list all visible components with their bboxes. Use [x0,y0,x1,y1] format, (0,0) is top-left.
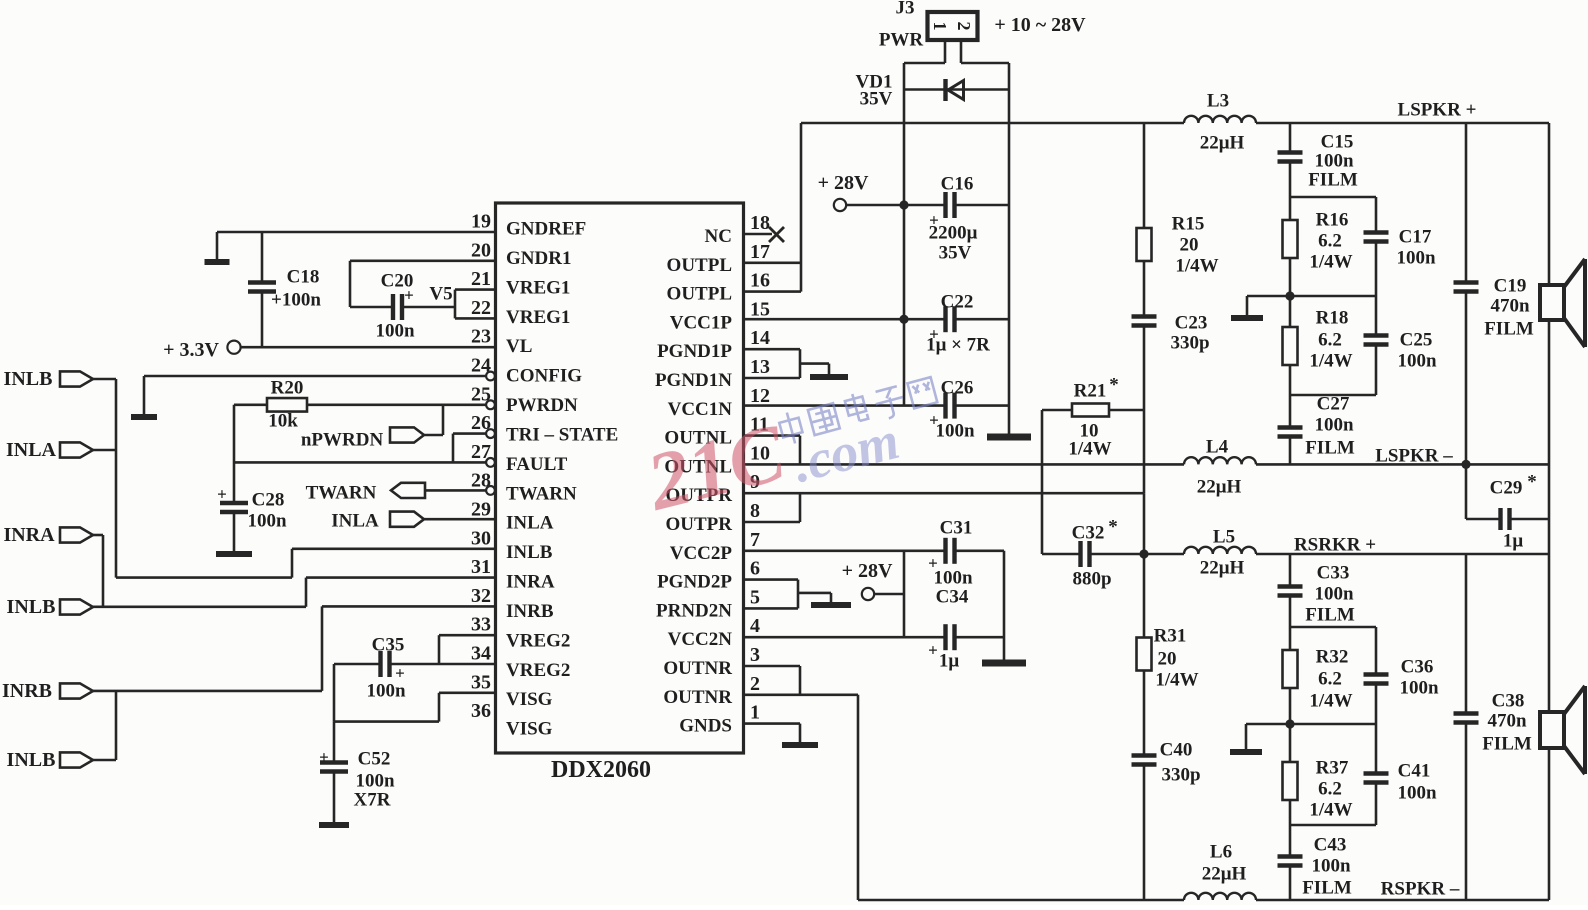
svg-text:GNDS: GNDS [679,716,732,737]
svg-text:C26: C26 [941,378,974,399]
svg-text:*: * [1108,517,1118,538]
svg-text:OUTNR: OUTNR [663,658,732,679]
pin 18 NC no-connect X [744,227,785,242]
svg-text:12: 12 [750,385,770,407]
pin 36 VISG label [471,700,553,740]
wire OUTNL pins 11,10 bracket and row [744,436,1550,465]
svg-text:FILM: FILM [1305,605,1355,626]
svg-text:nPWRDN: nPWRDN [301,430,384,451]
svg-text:1/4W: 1/4W [1175,256,1218,277]
node VCC/C16 junction [899,200,908,209]
svg-text:100n: 100n [247,511,287,532]
capacitor C36 100n [1290,657,1439,725]
pin 33 VREG2 label [471,614,570,652]
svg-text:TRI – STATE: TRI – STATE [506,424,618,445]
svg-text:1μ: 1μ [1503,531,1524,552]
svg-text:330p: 330p [1170,333,1209,354]
svg-text:100n: 100n [1397,783,1437,804]
svg-text:FILM: FILM [1484,319,1534,340]
svg-text:C29: C29 [1490,478,1523,499]
capacitor C34 1u [904,587,1004,672]
wire R32/C36 loop top [1290,627,1376,675]
svg-text:100n: 100n [355,771,395,792]
svg-text:1μ: 1μ [939,651,960,672]
net flag INRB input [2,680,93,702]
terminal +3.3V (pin 23 VL) [163,339,495,361]
svg-text:1/4W: 1/4W [1155,670,1198,691]
svg-text:L6: L6 [1210,842,1232,863]
svg-text:C40: C40 [1160,740,1193,761]
capacitor C19 470n FILM [1454,123,1534,464]
svg-text:16: 16 [750,270,770,292]
capacitor C17 100n [1290,227,1436,297]
wire INRA/INLB to pin 31 [93,535,496,607]
svg-text:1: 1 [930,22,950,31]
svg-text:100n: 100n [935,421,975,442]
ground GNDREF pin 19 [205,232,496,262]
svg-text:29: 29 [471,499,491,521]
svg-text:OUTNR: OUTNR [663,687,732,708]
svg-text:1/4W: 1/4W [1309,800,1352,821]
svg-text:*: * [1109,375,1119,396]
svg-text:C15: C15 [1321,132,1354,153]
pin 9 OUTPR label [666,471,761,506]
svg-text:VISG: VISG [506,719,553,740]
svg-text:20: 20 [471,239,491,261]
svg-text:20: 20 [1158,649,1177,670]
wire J3 pin2 to GND rail [961,40,1009,63]
svg-text:INLA: INLA [506,513,554,534]
wire VCC2 left vertical [903,551,906,637]
wire OUTNR pins 3,2 bracket and bottom row [744,666,1550,900]
svg-text:C18: C18 [287,267,320,288]
net flag INLB input 2 [7,596,93,618]
wire VREG1 pins 21,22 bracket [455,290,496,319]
wire C31/C34 right vertical [1003,551,1006,660]
svg-text:FILM: FILM [1482,734,1532,755]
svg-text:RSPKR –: RSPKR – [1381,879,1460,900]
svg-text:5: 5 [750,586,760,608]
svg-text:100n: 100n [1314,415,1354,436]
svg-text:+100n: +100n [271,290,321,311]
svg-text:C17: C17 [1399,227,1432,248]
svg-text:100n: 100n [1314,151,1354,172]
svg-text:R15: R15 [1172,214,1205,235]
speaker RSPKR [1540,554,1585,900]
resistor R21* 10 1/4W [1042,375,1144,460]
svg-text:R31: R31 [1154,626,1187,647]
wire VCC1P pin 15 [744,318,905,321]
svg-text:17: 17 [750,241,770,263]
resistor R31 20 1/4W [1137,554,1199,756]
wire J3 pin1 to VCC rail [904,40,945,63]
svg-text:C31: C31 [940,518,973,539]
speaker LSPKR [1540,123,1585,554]
net flag INLA (pin 29) [331,511,495,532]
svg-text:VCC2P: VCC2P [670,543,733,564]
svg-text:GNDR1: GNDR1 [506,248,571,269]
svg-text:PGND2P: PGND2P [657,572,732,593]
capacitor C20 100n V5 [350,261,496,342]
resistor R20 10k (pin 25 PWRDN) [234,378,495,432]
resistor R16 6.2 1/4W [1283,197,1353,296]
inductor L4 22uH [1184,437,1256,498]
pin 13 PGND1N label [655,356,770,391]
resistor R37 6.2 1/4W [1283,724,1353,825]
svg-text:4: 4 [750,615,760,637]
svg-text:30: 30 [471,527,491,549]
capacitor C26 100n (pin 12 VCC1N) [744,378,1010,442]
svg-text:22μH: 22μH [1200,133,1245,154]
resistor R32 6.2 1/4W [1283,627,1353,724]
svg-text:+ 3.3V: + 3.3V [163,339,219,361]
pin 12 VCC1N label [668,385,770,420]
ground midpoint L [1231,296,1290,318]
svg-text:VREG1: VREG1 [506,277,570,298]
ground PGND2 pins 6,5 [744,580,852,609]
node VCC1P junction [899,315,908,324]
svg-text:100n: 100n [366,681,406,702]
pin 25 PWRDN label [471,383,578,416]
svg-text:3: 3 [750,644,760,666]
svg-text:C52: C52 [358,749,391,770]
svg-text:32: 32 [471,585,491,607]
pin 29 INLA label [471,499,554,534]
svg-text:INLB: INLB [506,542,553,563]
svg-text:100n: 100n [375,321,415,342]
svg-text:22μH: 22μH [1200,558,1245,579]
svg-text:2: 2 [750,673,760,695]
svg-text:FILM: FILM [1305,438,1355,459]
svg-text:100n: 100n [933,568,973,589]
svg-text:INRA: INRA [506,572,555,593]
svg-text:CONFIG: CONFIG [506,366,582,387]
svg-text:OUTPL: OUTPL [667,255,732,276]
svg-text:L4: L4 [1206,437,1229,458]
wire OUTPL pins 17,16 bracket [744,123,802,292]
svg-text:C23: C23 [1175,313,1208,334]
capacitor C52 100n X7R [319,722,395,825]
svg-text:J3: J3 [896,0,915,19]
wire TRI-STATE/FAULT pins 26,27 bracket [234,429,495,467]
ground CONFIG pin 24 [131,372,495,417]
svg-text:36: 36 [471,700,491,722]
capacitor C25 100n [1290,296,1437,395]
pin 15 VCC1P label [670,298,770,333]
capacitor C28 100n [216,405,287,554]
capacitor C31 100n [904,518,1004,589]
svg-text:PWRDN: PWRDN [506,395,578,416]
capacitor C43 100n FILM [1278,825,1352,900]
pin 2 OUTNR label [663,673,760,708]
capacitor C22 1u x 7R [904,292,1009,356]
svg-text:VREG2: VREG2 [506,660,570,681]
svg-text:INLA: INLA [6,439,57,461]
ground GND rail [987,434,1031,441]
svg-text:15: 15 [750,298,770,320]
capacitor C23 330p [1132,313,1210,494]
svg-text:PGND1N: PGND1N [655,370,732,391]
svg-text:880p: 880p [1072,569,1111,590]
inductor L6 22uH [1184,842,1256,901]
pin 27 FAULT label [471,441,568,475]
pin 22 VREG1 label [471,297,570,328]
svg-text:35V: 35V [860,89,893,110]
svg-text:13: 13 [750,356,770,378]
connector J3 PWR [879,0,1086,51]
wire GND rail vertical [1008,63,1011,434]
wire VISG pins 35,36 bracket [334,664,496,722]
capacitor C33 100n FILM [1278,554,1355,627]
watermark chinese chars (decorative) [777,373,938,446]
svg-text:6.2: 6.2 [1318,330,1342,351]
net flag INLB input 3 [7,691,116,771]
node R16/R18 midpoint [1285,291,1294,300]
svg-text:C32: C32 [1072,523,1105,544]
terminal +28V (top) [818,172,904,211]
capacitor C18 100n [248,232,321,347]
svg-text:LSPKR –: LSPKR – [1375,446,1453,467]
svg-text:R32: R32 [1316,647,1349,668]
svg-text:22μH: 22μH [1202,864,1247,885]
svg-text:FILM: FILM [1308,170,1358,191]
pin 17 OUTPL label [667,241,770,276]
capacitor C41 100n [1290,724,1437,825]
pin 21 VREG1 label [471,268,570,298]
svg-text:TWARN: TWARN [506,483,577,504]
svg-text:C28: C28 [252,490,285,511]
capacitor C15 100n FILM [1278,123,1358,197]
svg-text:19: 19 [471,211,491,233]
svg-text:+ 10 ~ 28V: + 10 ~ 28V [994,14,1086,36]
svg-text:R20: R20 [271,378,304,399]
svg-text:OUTPL: OUTPL [667,284,732,305]
svg-text:6.2: 6.2 [1318,669,1342,690]
svg-text:C34: C34 [936,587,969,608]
svg-text:VREG2: VREG2 [506,630,570,651]
svg-text:+ 28V: + 28V [818,172,869,194]
svg-text:C22: C22 [941,292,974,313]
svg-text:6.2: 6.2 [1318,231,1342,252]
wire VCC rail vertical [903,63,906,406]
pin 6 PGND2P label [657,558,760,593]
svg-text:+: + [319,748,329,767]
diode VD1 35V [856,72,1009,110]
svg-text:31: 31 [471,556,491,578]
pin 20 GNDR1 label [471,239,571,269]
pin 28 TWARN label [471,470,577,505]
svg-text:PRND2N: PRND2N [656,600,732,621]
wire R16/C17 loop top [1290,197,1376,233]
pin 35 VISG label [471,671,553,710]
wire INRB to pin 32 [93,606,496,691]
wire VCC2N pin 4 [744,636,905,639]
svg-text:C36: C36 [1401,657,1434,678]
svg-text:100n: 100n [1396,248,1436,269]
svg-text:21: 21 [471,268,491,290]
capacitor C32* 880p [1042,517,1144,590]
svg-text:INLB: INLB [7,749,56,771]
svg-text:6: 6 [750,558,760,580]
op-amp U1 DDX2060 IC body [496,203,744,783]
svg-text:C41: C41 [1398,761,1431,782]
pin 1 GNDS label [679,702,760,737]
net flag INLB input 1 [4,368,116,390]
ground midpoint R [1230,724,1290,752]
pin 3 OUTNR label [663,644,760,679]
pin 7 VCC2P label [670,529,760,564]
svg-text:2: 2 [954,22,974,31]
pin 32 INRB label [471,585,554,622]
svg-text:28: 28 [471,470,491,492]
pin 34 VREG2 label [471,643,570,681]
svg-text:330p: 330p [1161,765,1200,786]
ground C31/C34 [982,660,1026,667]
capacitor C16 2200u 35V [904,174,1009,264]
svg-text:VL: VL [506,336,532,357]
svg-text:VREG1: VREG1 [506,307,570,328]
svg-text:R21: R21 [1074,381,1107,402]
svg-text:100n: 100n [1399,678,1439,699]
svg-text:VCC2N: VCC2N [668,629,733,650]
svg-text:100n: 100n [1314,584,1354,605]
svg-text:1: 1 [750,702,760,724]
svg-text:X7R: X7R [354,790,391,811]
wire VREG2 pins 33,34 bracket [439,635,496,664]
pin 31 INRA label [471,556,555,592]
svg-text:INLB: INLB [4,368,53,390]
svg-text:2200μ: 2200μ [929,223,978,244]
pin 23 VL label [471,326,532,357]
svg-text:LSPKR +: LSPKR + [1398,100,1477,121]
svg-text:RSRKR +: RSRKR + [1294,535,1376,556]
svg-text:INRB: INRB [2,680,52,702]
svg-text:+ 28V: + 28V [842,560,893,582]
node OUTPR/L5 junction [1139,549,1148,558]
svg-text:VISG: VISG [506,689,553,710]
capacitor C27 100n FILM [1278,394,1355,465]
svg-text:INRB: INRB [506,601,554,622]
svg-text:6.2: 6.2 [1318,779,1342,800]
svg-text:R16: R16 [1316,210,1349,231]
pin 26 TRI - STATE label [471,412,618,445]
svg-text:GNDREF: GNDREF [506,219,586,240]
svg-text:DDX2060: DDX2060 [551,757,651,783]
svg-text:1μ × 7R: 1μ × 7R [926,335,990,356]
svg-text:1/4W: 1/4W [1309,351,1352,372]
svg-text:L5: L5 [1213,527,1235,548]
net flag TWARN (pin 28) [306,483,495,504]
svg-text:C43: C43 [1314,835,1347,856]
svg-text:14: 14 [750,327,770,349]
pin 10 OUTNL label [664,442,770,477]
svg-text:+: + [217,485,227,504]
pin 30 INLB label [471,527,553,563]
svg-text:C19: C19 [1494,276,1527,297]
svg-text:C35: C35 [372,635,405,656]
capacitor C29* 1u [1466,464,1549,551]
svg-text:100n: 100n [1397,351,1437,372]
svg-text:+: + [404,286,414,305]
pin 5 PRND2N label [656,586,760,621]
capacitor C40 330p [1132,740,1201,901]
pin 8 OUTPR label [666,500,761,535]
svg-text:*: * [1527,472,1537,493]
svg-text:33: 33 [471,614,491,636]
pin 19 GNDREF label [471,211,586,240]
svg-text:C25: C25 [1400,330,1433,351]
ground GNDS pin 1 [744,724,819,745]
svg-text:22μH: 22μH [1197,477,1242,498]
capacitor C38 470n FILM [1454,554,1532,900]
svg-text:10k: 10k [268,411,298,432]
svg-text:1/4W: 1/4W [1309,691,1352,712]
svg-text:INRA: INRA [3,524,55,546]
net flag INLA input [6,439,116,461]
svg-text:NC: NC [705,226,732,247]
pin 11 OUTNL label [664,414,768,449]
svg-text:470n: 470n [1487,711,1527,732]
inductor L5 22uH and RSRKR+ row [1144,527,1549,579]
svg-text:+: + [928,641,938,660]
inductor L3 22uH [1184,91,1256,154]
capacitor C35 100n [334,635,439,702]
svg-text:TWARN: TWARN [306,483,377,504]
svg-text:35V: 35V [939,243,972,264]
svg-text:C33: C33 [1317,563,1350,584]
svg-text:R18: R18 [1316,308,1349,329]
pin 24 CONFIG label [471,355,582,387]
wire VCC2P pin 7 [744,549,905,552]
wire OUTPL bus to L3 and LSPKR+ [801,122,1549,125]
terminal +28V (lower) [842,560,904,600]
svg-text:R37: R37 [1316,758,1349,779]
svg-text:34: 34 [471,643,491,665]
svg-text:PWR: PWR [879,30,924,51]
resistor R18 6.2 1/4W [1283,296,1353,395]
pin 18 NC label [705,212,770,247]
svg-text:VCC1P: VCC1P [670,312,733,333]
svg-text:1/4W: 1/4W [1068,439,1111,460]
svg-text:INLA: INLA [331,511,379,532]
svg-text:C27: C27 [1317,394,1350,415]
svg-text:18: 18 [750,212,770,234]
svg-text:PGND1P: PGND1P [657,341,732,362]
pin 4 VCC2N label [668,615,760,650]
svg-text:100n: 100n [1311,856,1351,877]
net flag nPWRDN [301,405,443,451]
resistor R15 20 1/4W [1137,123,1219,317]
pin 14 PGND1P label [657,327,770,362]
svg-text:22: 22 [471,297,491,319]
watermark 21C (decorative) [638,406,795,528]
svg-text:L3: L3 [1207,91,1229,112]
svg-text:1/4W: 1/4W [1309,252,1352,273]
svg-text:23: 23 [471,326,491,348]
svg-text:7: 7 [750,529,760,551]
svg-text:C16: C16 [941,174,974,195]
svg-text:INLB: INLB [7,596,56,618]
wire R21 to C32 branch [1041,410,1044,554]
ground PGND1 pins 14,13 [744,349,849,378]
svg-text:20: 20 [1180,235,1199,256]
svg-text:FILM: FILM [1302,878,1352,899]
node R32/R37 midpoint [1285,719,1294,728]
node C19/LSPKR- junction [1461,460,1470,469]
svg-text:VCC1N: VCC1N [668,399,733,420]
svg-text:FAULT: FAULT [506,454,568,475]
wire INLB/INLA to pin 30 [116,379,496,578]
